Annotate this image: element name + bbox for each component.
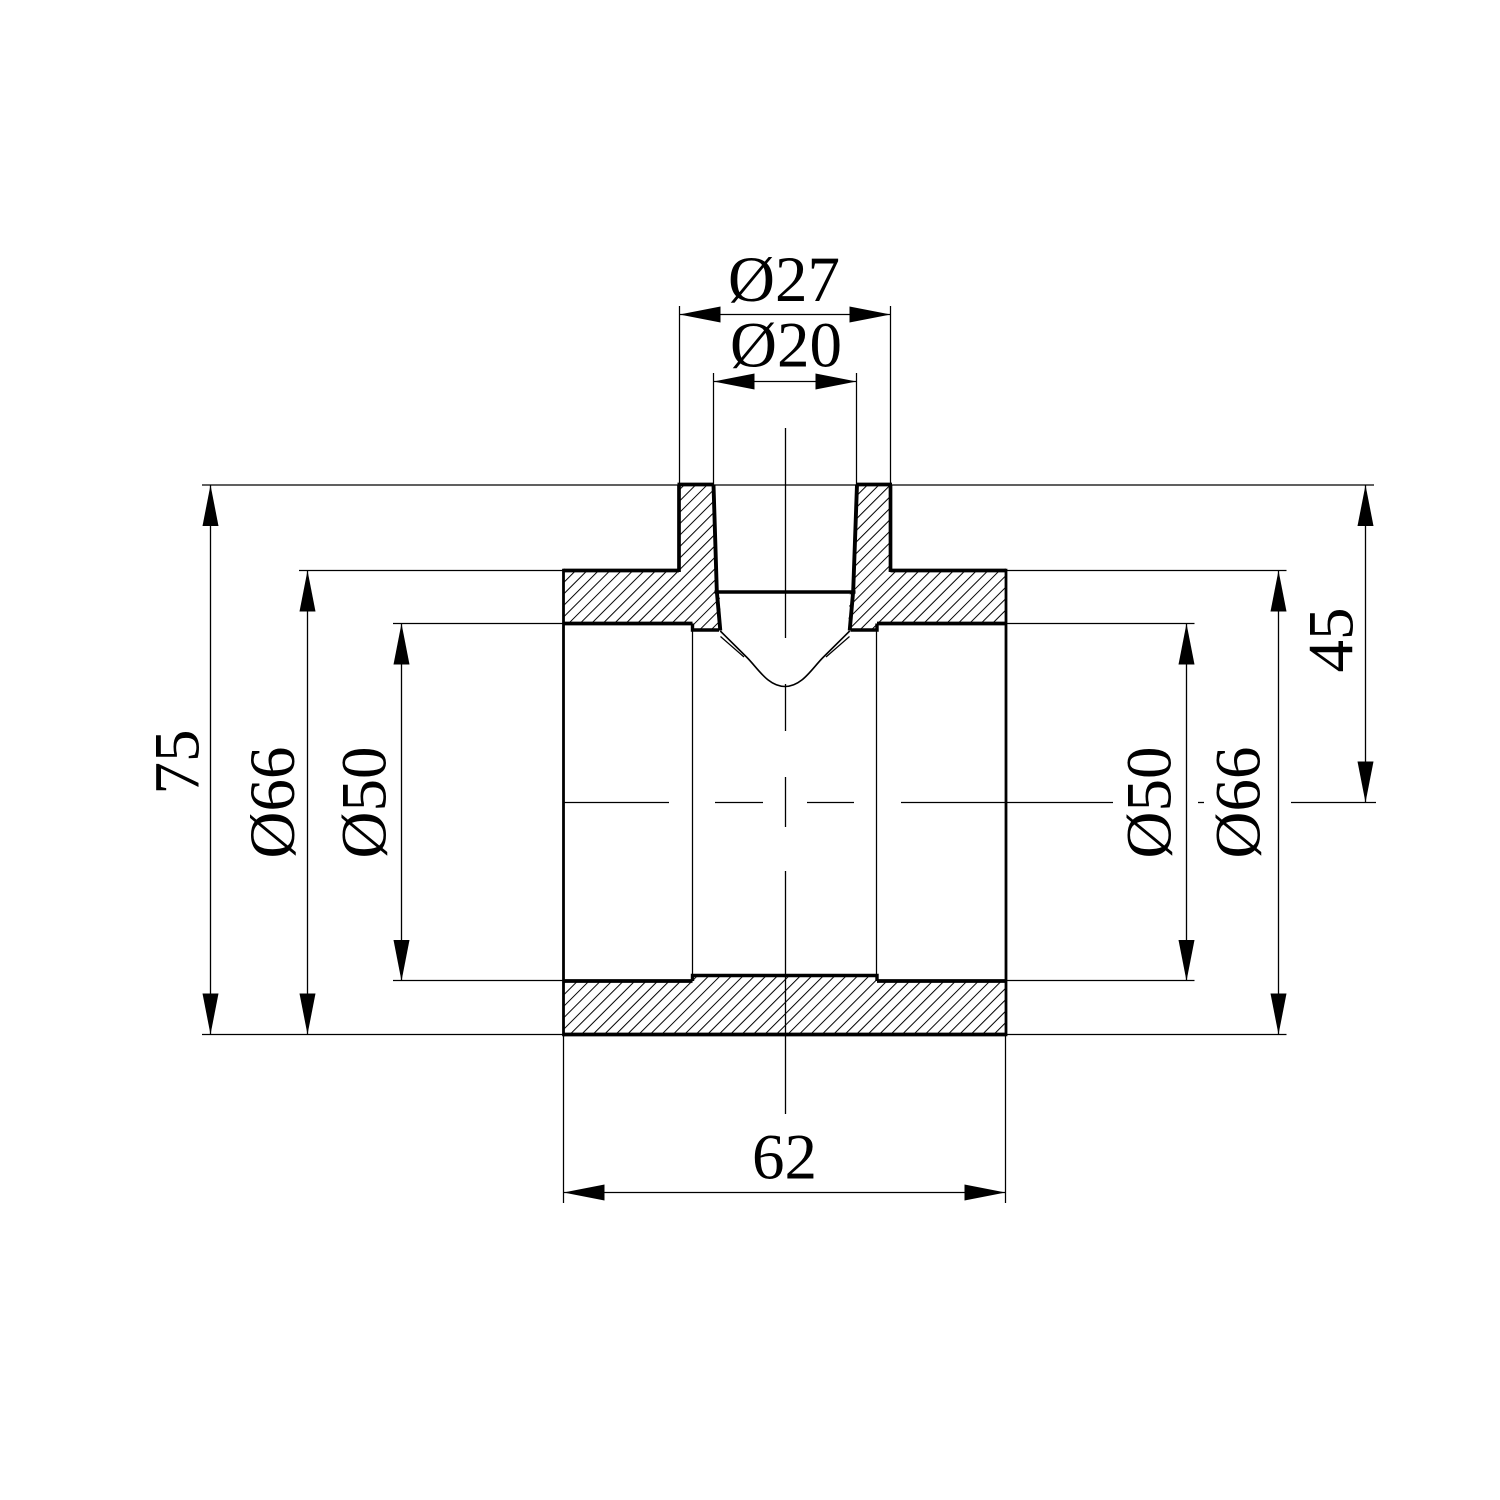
dim line 62: [564, 1192, 1006, 1194]
centerline vertical x=785 dash-dot: [785, 428, 787, 1114]
funnel transition cone and dome: [720, 631, 849, 687]
extension line y=981 left (O50 left bottom): [393, 980, 564, 982]
bottom band bottom edge: [564, 1033, 1007, 1037]
extension line y=981 right (O50 right bottom): [1006, 980, 1195, 982]
svg-text:62: 62: [752, 1122, 817, 1194]
arrow 62 right: [965, 1185, 1006, 1201]
svg-text:Ø27: Ø27: [728, 244, 840, 316]
dim line 45: [1365, 485, 1367, 803]
svg-text:Ø50: Ø50: [329, 747, 401, 859]
extension line x=857 up (O20 right): [856, 373, 858, 485]
arrow O66R top: [1271, 571, 1287, 612]
extension line y=571 left (O66 left): [299, 570, 564, 572]
bore bottom line right socket: [877, 979, 1006, 983]
socket depth line left x=693 thin: [692, 624, 694, 976]
end face right: [1005, 569, 1008, 1036]
hatch fill right top wall section: [848, 485, 1006, 631]
dim line O50 left: [401, 624, 403, 982]
end face left: [562, 569, 565, 1036]
extension line x=1006 down (62 dim right): [1005, 1035, 1007, 1204]
extension line y=485 full width (75 and 45 dims): [202, 484, 1374, 486]
arrow O27 left: [680, 307, 721, 323]
funnel inner intersection line right: [826, 637, 850, 658]
arrow 75 bottom: [203, 994, 219, 1035]
branch outer wall right: [889, 485, 893, 573]
arrow O66L top: [300, 571, 316, 612]
arrow O20 left: [714, 374, 755, 390]
branch outer wall left: [677, 485, 681, 573]
socket depth line right x=876.5 thin: [876, 624, 878, 976]
funnel inner intersection line left: [721, 637, 745, 658]
arrow O50R bottom: [1179, 940, 1195, 981]
svg-text:Ø66: Ø66: [1203, 747, 1275, 859]
svg-text:Ø66: Ø66: [237, 747, 309, 859]
body outline: top right band top edge: [891, 569, 1007, 573]
bore top step right: [851, 624, 878, 631]
bore top line left socket: [564, 622, 693, 626]
extension line y=571 right (O66 right): [1006, 570, 1287, 572]
extension line x=891 up (O27 right): [890, 306, 892, 485]
extension line y=623.5 right (O50 right): [1006, 623, 1195, 625]
extension line y=1034.5 left (75 and O66 bottom): [202, 1034, 564, 1036]
dim line O66 left: [307, 571, 309, 1035]
extension line y=623.5 left (O50 left): [393, 623, 564, 625]
arrow O50R top: [1179, 624, 1195, 665]
svg-text:75: 75: [142, 730, 214, 795]
branch inner wall left: [714, 485, 721, 631]
extension line y=1034.5 right (O66 bottom): [1006, 1034, 1287, 1036]
svg-text:Ø20: Ø20: [730, 310, 842, 382]
dim line 75: [210, 485, 212, 1035]
arrow 45 top: [1358, 485, 1374, 526]
dim line O50 right: [1186, 624, 1188, 982]
extension line x=563.5 down (62 dim left): [563, 1035, 565, 1204]
dim line O20: [714, 381, 857, 383]
dim line O27: [680, 314, 891, 316]
extension line x=713.5 up (O20 left): [713, 373, 715, 485]
hatch fill bottom wall section: [564, 976, 1007, 1035]
extension line x=679.5 up (O27 left): [679, 306, 681, 485]
hatch fill left top wall section: [564, 485, 722, 631]
arrow O50L top: [394, 624, 410, 665]
socket seat line: [715, 590, 856, 593]
arrow O66R bottom: [1271, 994, 1287, 1035]
arrow 62 left: [564, 1185, 605, 1201]
arrow 75 top: [203, 485, 219, 526]
branch top face right: [857, 483, 892, 487]
arrow 45 bottom: [1358, 762, 1374, 803]
bore top line right socket: [877, 622, 1006, 626]
branch top face left: [678, 483, 714, 487]
centerline horizontal y=802.5 dash-dot: [564, 802, 1376, 804]
arrow O27 right: [850, 307, 891, 323]
dim line O66 right: [1278, 571, 1280, 1035]
bore top step left: [693, 624, 720, 631]
body outline: top left band top edge: [564, 569, 680, 573]
svg-text:Ø50: Ø50: [1114, 747, 1186, 859]
bore bottom line left socket: [564, 979, 693, 983]
arrow O20 right: [816, 374, 857, 390]
arrow O66L bottom: [300, 994, 316, 1035]
bore bottom middle raised line: [693, 976, 878, 982]
arrow O50L bottom: [394, 940, 410, 981]
branch inner wall right: [850, 485, 857, 631]
svg-text:45: 45: [1296, 608, 1368, 673]
